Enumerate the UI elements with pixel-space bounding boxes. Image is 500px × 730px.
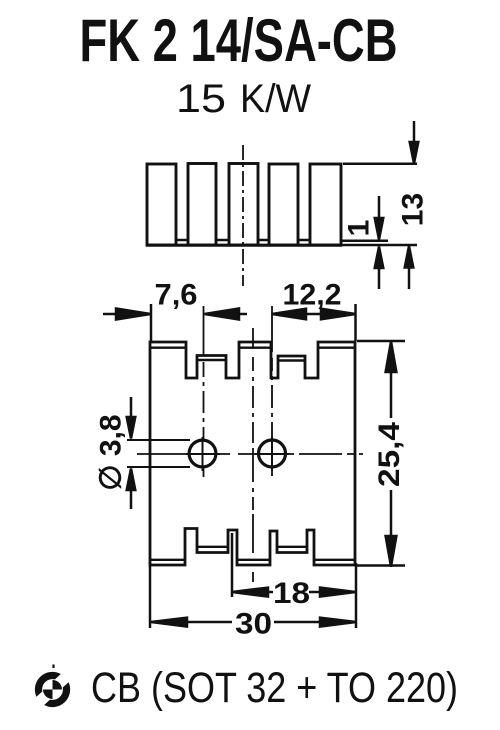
front view bottom lip inner lines: [150, 547, 355, 560]
left hole centerline (vertical): [203, 306, 205, 477]
dim 18: right arrow: [309, 591, 321, 594]
svg-text:25,4: 25,4: [373, 422, 406, 487]
dim 13: lower arrow: [408, 268, 411, 289]
dim 3,8: lower tangent leader line: [127, 466, 190, 468]
dim 25,4: dimension line upper part: [390, 341, 393, 418]
front view top lip inner lines: [150, 348, 355, 361]
dim 13: top extension line: [343, 163, 417, 166]
top profile view: fin 2: [188, 164, 216, 246]
svg-text:FK 2 14/SA-CB: FK 2 14/SA-CB: [80, 7, 398, 74]
base plate top surface in gap 1: [176, 239, 188, 242]
dim 25,4: top arrow: [386, 342, 397, 373]
base plate top surface in gap 2: [216, 239, 229, 242]
svg-text:K/W: K/W: [240, 77, 311, 121]
dim 25,4: dimension line lower part: [390, 490, 393, 567]
right mounting hole: [259, 440, 286, 467]
footer logo inner circle NE quadrant: [53, 680, 63, 690]
dim 30: left arrow: [151, 618, 187, 627]
dim 25,4: bottom arrow: [386, 536, 397, 567]
dim 30: right arrow: [274, 621, 321, 624]
footer logo inner circle SW quadrant: [43, 690, 53, 700]
svg-text:15: 15: [176, 77, 226, 121]
dim 25,4: bottom extension line: [357, 564, 405, 567]
svg-text:13: 13: [397, 193, 430, 226]
svg-text:∅ 3,8: ∅ 3,8: [95, 414, 128, 490]
top view centerline: [242, 145, 244, 286]
dim 13: bottom extension line: [342, 244, 417, 247]
svg-text:30: 30: [235, 608, 272, 641]
front view vertical centerline: [252, 328, 254, 582]
dim 3,8: lower arrow: [130, 489, 133, 509]
left mounting hole: [189, 440, 216, 467]
footer logo upper-left sector: [35, 672, 61, 697]
dim 7,6: left extension line: [150, 304, 153, 341]
dim 7,6: right outside arrow: [237, 313, 247, 316]
right hole centerline (vertical): [271, 306, 273, 476]
thermal resistance 15 K/W: [176, 77, 311, 121]
dim 18: left arrow: [232, 588, 268, 597]
top profile view: fin 1: [147, 164, 176, 245]
dim 13: upper arrow: [413, 121, 416, 143]
base plate top surface in gap 4: [298, 239, 310, 242]
top profile view: fin 5: [310, 164, 341, 245]
dim 12,2: right extension line: [354, 304, 357, 341]
top profile view: fin 4: [269, 164, 298, 245]
front view body outline: [150, 342, 355, 565]
dim 25,4: top extension line: [357, 340, 405, 343]
footer logo lower-right sector: [44, 682, 70, 707]
dim 1: extension line (base top): [342, 240, 388, 243]
dim 3,8: upper tangent leader line: [127, 439, 190, 441]
dim 12,2: right arrow: [321, 309, 356, 320]
svg-text:CB (SOT 32 + TO 220): CB (SOT 32 + TO 220): [91, 664, 458, 712]
dim 30: left extension line: [149, 563, 152, 628]
horizontal centerline through holes: [137, 453, 363, 455]
dim 3,8: upper arrow: [130, 397, 133, 418]
dim 7,6: left outside arrow: [103, 313, 119, 316]
base plate bottom line: [146, 244, 342, 247]
dim 1: lower arrow: [378, 268, 381, 289]
base plate top surface in gap 3: [258, 239, 269, 242]
svg-text:7,6: 7,6: [155, 279, 198, 312]
top profile view: fin 3: [229, 164, 258, 246]
svg-text:1: 1: [343, 220, 376, 237]
dim 30: right extension line: [355, 563, 358, 628]
dim 12,2: dimension line: [272, 313, 355, 316]
dim 1: upper arrow: [378, 196, 381, 218]
svg-text:12,2: 12,2: [283, 279, 342, 312]
svg-text:18: 18: [273, 577, 310, 610]
dim 12,2: left arrow: [272, 309, 306, 320]
dim 18: left extension line: [231, 533, 234, 597]
footer logo small tick: [52, 665, 54, 669]
